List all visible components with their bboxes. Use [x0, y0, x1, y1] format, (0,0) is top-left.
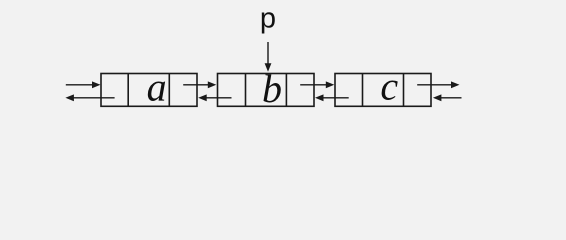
svg-text:c: c: [380, 63, 398, 108]
svg-text:a: a: [147, 64, 167, 109]
arrow node b prev to node a: [198, 94, 231, 101]
arrow node a next to node b: [183, 81, 216, 88]
arrow p to node b: [265, 42, 272, 72]
node c box: [335, 74, 431, 107]
svg-text:p: p: [260, 2, 276, 34]
arrow node a prev to off-left: [65, 94, 114, 101]
arrow node b next to node c: [300, 81, 334, 88]
arrow node c prev to node b: [315, 94, 349, 101]
doubly linked list diagram: [0, 0, 566, 139]
node a box: [101, 74, 197, 107]
svg-text:b: b: [262, 66, 282, 111]
arrow into node a (next from off-left): [66, 81, 101, 88]
arrow from off-right (prev into node c): [433, 94, 462, 101]
node b box: [218, 74, 315, 107]
arrow node c next to off-right: [417, 81, 459, 88]
